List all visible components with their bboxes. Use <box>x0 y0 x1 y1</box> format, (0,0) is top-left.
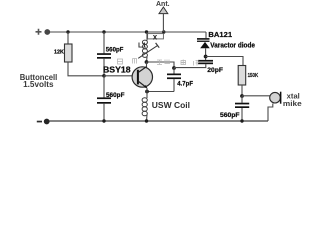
svg-text:x: x <box>153 32 158 41</box>
arrow variable inductor <box>138 43 159 58</box>
capacitor C1 560pF <box>97 53 111 59</box>
wire mike return <box>268 104 273 122</box>
svg-text:BSY18: BSY18 <box>103 65 131 74</box>
svg-text:560pF: 560pF <box>106 92 125 99</box>
capacitor 20pF <box>198 60 213 64</box>
node 150K bottom junction <box>240 94 244 98</box>
wire top rail <box>50 31 206 33</box>
battery minus terminal <box>37 119 50 125</box>
node L1 bottom junction <box>145 60 149 64</box>
svg-text:560pF: 560pF <box>220 112 240 119</box>
node 4.7pF top junction <box>172 66 176 70</box>
watermark glyph 6 <box>194 61 199 66</box>
microphone xtal mike <box>270 92 282 104</box>
wire L1 node to 4.7pF node <box>147 62 175 68</box>
node base junction <box>102 74 106 78</box>
svg-text:20pF: 20pF <box>207 67 223 74</box>
capacitor C3 560pF <box>235 96 249 121</box>
svg-text:Varactor diode: Varactor diode <box>210 42 255 49</box>
resistor R2 150K <box>238 66 246 86</box>
svg-text:USW Coil: USW Coil <box>152 101 190 110</box>
inductor L1 (variable) <box>142 32 147 62</box>
wire rail to varactor <box>164 31 206 33</box>
node bottom rail at C3 <box>240 119 243 122</box>
inductor USW coil <box>142 92 147 122</box>
node top rail at L1 <box>145 30 148 33</box>
wire mike feed <box>242 95 270 97</box>
wire emitter node to 4.7pF bottom <box>147 91 174 93</box>
node top rail at 12K <box>66 30 69 33</box>
watermark glyph 3 <box>157 60 162 65</box>
watermark glyph 5 <box>181 60 186 65</box>
battery plus terminal <box>36 29 51 35</box>
node top rail at 560pF <box>102 30 105 33</box>
wire 12K top stub <box>67 32 69 44</box>
capacitor C2 560pF <box>97 97 111 103</box>
watermark glyph 1 <box>118 59 123 64</box>
wire 12K bottom to base node <box>68 62 104 76</box>
resistor R1 12K <box>65 44 73 62</box>
wire varactor node to 150K <box>206 57 243 66</box>
svg-text:12K: 12K <box>54 50 64 56</box>
coupling box X on L1 <box>148 32 164 41</box>
node bottom rail at USW coil <box>145 119 148 122</box>
svg-text:Ant.: Ant. <box>156 1 170 8</box>
node bottom rail at C2 <box>102 119 105 122</box>
watermark glyph 4 <box>165 60 171 64</box>
wire 4.7pF node to 20pF bottom <box>174 64 206 67</box>
node top rail at antenna <box>162 30 165 33</box>
wire collector stub <box>146 62 148 68</box>
label Buttoncell 1.5volts <box>20 73 58 89</box>
node varactor bottom junction <box>204 55 208 59</box>
node emitter junction <box>145 90 149 94</box>
svg-text:L1: L1 <box>138 42 146 49</box>
svg-text:150K: 150K <box>248 73 259 79</box>
wire C1 bottom stub <box>103 59 105 76</box>
wire bottom rail <box>50 120 269 122</box>
wire base <box>104 75 137 77</box>
capacitor 4.7pF <box>167 68 181 92</box>
transistor Q1 BSY18 <box>132 67 152 92</box>
watermark glyph 2 <box>133 59 137 64</box>
svg-text:mike: mike <box>283 99 302 108</box>
wire C2 top stub <box>103 76 105 98</box>
diode varactor BA121 <box>197 32 210 60</box>
antenna Ant. <box>156 1 170 32</box>
wire C2 bottom stub <box>103 104 105 121</box>
svg-text:BA121: BA121 <box>208 30 232 39</box>
wire 150K bottom <box>241 85 243 96</box>
wire C1 top stub <box>103 32 105 53</box>
svg-text:560pF: 560pF <box>106 47 124 54</box>
svg-text:4.7pF: 4.7pF <box>177 82 193 88</box>
svg-text:1.5volts: 1.5volts <box>23 80 54 89</box>
